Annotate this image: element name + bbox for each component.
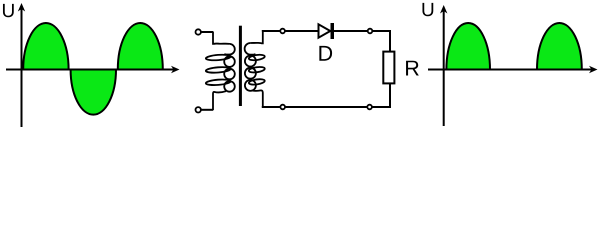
right waveform hump 2 bbox=[537, 23, 582, 70]
primary top terminal bbox=[196, 29, 201, 34]
top wire: secondary to node 1 bbox=[263, 30, 280, 33]
wire: primary coil to bottom terminal bbox=[201, 109, 213, 111]
label R bbox=[406, 61, 419, 76]
wire: node to top-right corner, down to resistor bbox=[373, 31, 390, 52]
wire: diode to node 2 bbox=[334, 30, 367, 32]
right waveform hump 1 bbox=[446, 23, 490, 70]
node circle bottom-left bbox=[280, 105, 285, 110]
right graph Y axis bbox=[443, 10, 445, 126]
left graph label U bbox=[3, 4, 14, 17]
node circle top-left bbox=[280, 29, 285, 34]
wire: node3 to node4 bbox=[286, 106, 367, 108]
primary coil L1 bbox=[213, 32, 230, 45]
label D bbox=[319, 46, 332, 61]
left graph Y axis bbox=[21, 8, 23, 127]
right graph X axis bbox=[428, 69, 592, 71]
wire: resistor down to bottom-right corner, left to node 3 bbox=[372, 83, 390, 107]
left waveform: positive half-cycle 1 bbox=[23, 23, 68, 69]
node circle top-right bbox=[368, 29, 373, 34]
transformer core bbox=[239, 26, 242, 106]
left waveform: negative half-cycle bbox=[71, 70, 116, 115]
resistor R body bbox=[383, 52, 394, 84]
diode D triangle bbox=[319, 24, 331, 37]
left waveform: positive half-cycle 2 bbox=[118, 23, 163, 70]
wire: node to diode bbox=[285, 30, 318, 32]
primary bottom terminal bbox=[196, 107, 201, 112]
node circle bottom-right bbox=[367, 105, 372, 110]
left graph X axis bbox=[6, 69, 174, 71]
wire: top terminal to primary coil bbox=[201, 31, 213, 33]
wire: node4 to secondary bottom bbox=[263, 106, 280, 107]
right graph label U bbox=[422, 3, 433, 16]
diode cathode bar bbox=[331, 23, 335, 39]
secondary coil L2 bbox=[250, 31, 262, 45]
